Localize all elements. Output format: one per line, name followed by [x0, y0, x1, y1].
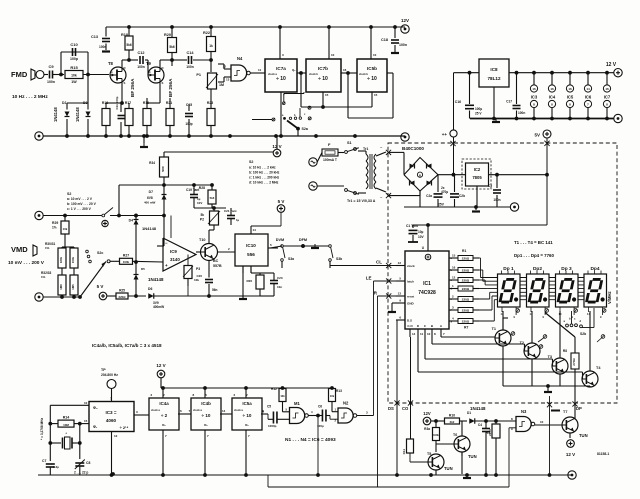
- svg-text:IC7a: IC7a: [276, 66, 286, 71]
- svg-text:+: +: [165, 263, 168, 268]
- svg-text:100p: 100p: [70, 57, 78, 61]
- svg-text:15: 15: [84, 419, 88, 423]
- svg-text:220Ω: 220Ω: [462, 287, 470, 291]
- svg-text:clock: clock: [407, 264, 415, 268]
- svg-text:5k6: 5k6: [169, 45, 175, 49]
- svg-text:P2: P2: [200, 218, 204, 222]
- svg-text:C9: C9: [48, 64, 54, 69]
- svg-text:3.3p: 3.3p: [53, 465, 59, 469]
- svg-text:10k: 10k: [194, 278, 199, 282]
- svg-text:CL: CL: [376, 260, 382, 265]
- svg-text:10M: 10M: [63, 423, 69, 427]
- svg-text:10V: 10V: [418, 235, 425, 239]
- svg-text:220Ω: 220Ω: [462, 278, 470, 282]
- svg-text:C16: C16: [455, 100, 461, 104]
- svg-text:R23: R23: [207, 101, 213, 105]
- svg-text:25 V: 25 V: [475, 112, 482, 116]
- svg-text:6V8: 6V8: [147, 196, 153, 200]
- svg-text:1N4148: 1N4148: [75, 107, 80, 122]
- svg-text:10: 10: [540, 420, 544, 424]
- svg-text:d: 10 kHz . . . 2 MHz: d: 10 kHz . . . 2 MHz: [249, 181, 279, 185]
- svg-text:TUN: TUN: [468, 454, 477, 459]
- svg-text:R21: R21: [166, 101, 172, 105]
- svg-text:100n: 100n: [47, 80, 55, 84]
- svg-text:R8: R8: [563, 349, 567, 353]
- svg-text:Tr1: Tr1: [363, 147, 368, 151]
- svg-text:G: G: [149, 70, 151, 74]
- svg-text:R3a: R3a: [424, 427, 430, 431]
- svg-text:T6: T6: [453, 433, 457, 437]
- svg-text:1M8: 1M8: [59, 284, 63, 290]
- svg-text:T8: T8: [108, 61, 114, 66]
- svg-text:N1 . . . N4 = IC6 = 4093: N1 . . . N4 = IC6 = 4093: [285, 437, 336, 443]
- svg-text:FMD: FMD: [11, 70, 28, 79]
- svg-text:16: 16: [343, 68, 347, 72]
- svg-text:R27: R27: [123, 253, 129, 257]
- svg-text:R1: R1: [462, 249, 466, 253]
- svg-text:220Ω: 220Ω: [462, 256, 470, 260]
- svg-text:T7: T7: [563, 410, 567, 414]
- svg-text:270Ω: 270Ω: [572, 358, 576, 366]
- svg-text:1000p: 1000p: [268, 424, 277, 428]
- svg-text:IC6: IC6: [585, 95, 592, 100]
- svg-text:C1 Tant: C1 Tant: [406, 224, 419, 228]
- svg-text:D5: D5: [141, 267, 145, 271]
- svg-text:12V: 12V: [423, 411, 431, 416]
- svg-text:10 mV . . . 200 V: 10 mV . . . 200 V: [8, 260, 45, 266]
- svg-text:10: 10: [373, 53, 377, 57]
- svg-text:b: 100 Hz . . . 20 kHz: b: 100 Hz . . . 20 kHz: [249, 171, 280, 175]
- svg-text:T5: T5: [427, 452, 431, 456]
- svg-text:C18: C18: [381, 38, 388, 42]
- svg-text:12: 12: [452, 276, 456, 280]
- svg-text:IC3: IC3: [531, 95, 538, 100]
- svg-text:B40C1000: B40C1000: [402, 146, 424, 151]
- svg-text:12: 12: [398, 261, 402, 265]
- svg-text:T10: T10: [199, 238, 206, 242]
- svg-text:IC4b: IC4b: [201, 401, 211, 406]
- svg-text:78L12: 78L12: [487, 76, 500, 81]
- svg-text:1%: 1%: [41, 275, 46, 279]
- svg-text:R18: R18: [121, 33, 128, 37]
- svg-text:D6: D6: [148, 287, 152, 291]
- svg-text:1%: 1%: [45, 246, 50, 250]
- svg-text:557B: 557B: [213, 264, 222, 268]
- svg-text:f: f: [451, 308, 452, 312]
- svg-text:÷ 10: ÷ 10: [243, 413, 252, 418]
- svg-text:latch: latch: [407, 280, 414, 284]
- svg-text:100n: 100n: [518, 111, 525, 115]
- svg-text:14: 14: [253, 228, 257, 232]
- svg-text:10k: 10k: [280, 394, 285, 398]
- svg-text:12 V: 12 V: [156, 363, 165, 368]
- svg-text:÷ 10: ÷ 10: [318, 76, 328, 82]
- svg-text:LE: LE: [366, 276, 372, 281]
- svg-text:÷ 10: ÷ 10: [202, 413, 211, 418]
- svg-text:IC5: IC5: [567, 95, 574, 100]
- svg-text:T9: T9: [146, 61, 152, 66]
- svg-text:S2c: S2c: [97, 251, 103, 255]
- svg-text:IC10: IC10: [246, 243, 256, 248]
- svg-text:IC4a: IC4a: [159, 401, 169, 406]
- svg-text:IC1: IC1: [423, 281, 431, 287]
- svg-text:IC2: IC2: [474, 167, 481, 172]
- svg-text:16: 16: [568, 87, 572, 91]
- svg-text:81158-1: 81158-1: [597, 452, 609, 456]
- svg-text:14: 14: [586, 87, 590, 91]
- svg-text:470µ: 470µ: [441, 190, 448, 194]
- svg-text:12V: 12V: [401, 18, 409, 23]
- svg-text:N3: N3: [521, 409, 527, 414]
- svg-text:R14: R14: [63, 416, 70, 420]
- svg-text:++: ++: [442, 132, 448, 137]
- svg-text:204.800 Hz: 204.800 Hz: [101, 373, 118, 377]
- svg-text:Dp4: Dp4: [590, 266, 599, 272]
- svg-text:220Ω: 220Ω: [462, 268, 470, 272]
- svg-text:1µ: 1µ: [236, 218, 240, 222]
- svg-text:÷ 10: ÷ 10: [276, 76, 286, 82]
- svg-text:11: 11: [420, 332, 424, 336]
- svg-text:13: 13: [398, 292, 402, 296]
- svg-text:P1: P1: [196, 73, 201, 77]
- svg-text:4060: 4060: [106, 418, 117, 423]
- svg-text:T3: T3: [548, 355, 552, 359]
- svg-text:C.O: C.O: [407, 324, 413, 328]
- svg-text:74C928: 74C928: [418, 290, 436, 296]
- svg-text:R17: R17: [125, 101, 131, 105]
- svg-text:7805: 7805: [472, 175, 482, 180]
- svg-text:÷ 2: ÷ 2: [161, 413, 168, 418]
- svg-text:1%: 1%: [52, 226, 57, 230]
- svg-text:100µ: 100µ: [475, 107, 482, 111]
- svg-text:100k: 100k: [433, 433, 439, 437]
- svg-text:reset: reset: [407, 295, 414, 299]
- svg-text:clock b: clock b: [309, 72, 318, 76]
- svg-text:10: 10: [331, 53, 335, 57]
- svg-text:D7: D7: [149, 190, 153, 194]
- svg-text:R12: R12: [271, 387, 277, 391]
- svg-text:C23: C23: [277, 276, 283, 280]
- svg-text:VMD: VMD: [11, 245, 28, 254]
- svg-text:C17: C17: [506, 100, 512, 104]
- svg-text:C20: C20: [196, 274, 202, 278]
- svg-text:10: 10: [84, 401, 88, 405]
- svg-text:5 V: 5 V: [97, 284, 104, 289]
- svg-text:12 V: 12 V: [606, 62, 617, 68]
- svg-text:R29: R29: [52, 221, 58, 225]
- svg-text:S3a: S3a: [288, 257, 294, 261]
- svg-text:56n: 56n: [212, 288, 218, 292]
- svg-text:a: 10 mV . . . 2 V: a: 10 mV . . . 2 V: [67, 197, 93, 201]
- svg-text:IC7: IC7: [604, 95, 611, 100]
- svg-text:2 . . . 22 p: 2 . . . 22 p: [74, 471, 88, 475]
- svg-text:TUN: TUN: [579, 433, 588, 438]
- svg-text:14: 14: [222, 409, 226, 413]
- svg-text:100mA T: 100mA T: [323, 158, 338, 162]
- svg-text:D2: D2: [62, 101, 66, 105]
- svg-text:C7: C7: [42, 459, 46, 463]
- svg-text:1N4148: 1N4148: [148, 277, 164, 282]
- svg-text:556: 556: [247, 252, 255, 257]
- svg-text:C21 Tant: C21 Tant: [224, 209, 236, 213]
- svg-text:R9: R9: [486, 431, 490, 435]
- svg-text:12: 12: [114, 434, 118, 438]
- svg-text:V/MHz: V/MHz: [607, 291, 612, 304]
- svg-text:R25: R25: [119, 289, 125, 293]
- svg-text:a: 10 Hz . . . 2 kHz: a: 10 Hz . . . 2 kHz: [249, 166, 276, 170]
- svg-text:100n: 100n: [99, 45, 107, 49]
- svg-text:Dp1 . . . Dp4 = 7760: Dp1 . . . Dp4 = 7760: [514, 253, 554, 258]
- svg-text:C4: C4: [478, 423, 482, 427]
- svg-text:÷ 10: ÷ 10: [367, 76, 377, 82]
- svg-text:Dp2: Dp2: [533, 266, 542, 272]
- svg-text:100n: 100n: [137, 65, 145, 69]
- svg-text:TUN: TUN: [444, 466, 453, 471]
- svg-text:C8: C8: [86, 461, 90, 465]
- svg-text:clock a: clock a: [234, 408, 243, 412]
- svg-text:DP: DP: [576, 406, 582, 411]
- svg-text:T1 . . . T4 = BC 141: T1 . . . T4 = BC 141: [514, 240, 553, 245]
- svg-text:15: 15: [452, 254, 456, 258]
- svg-text:IC3 =: IC3 =: [105, 410, 116, 415]
- svg-text:Dp 1: Dp 1: [503, 266, 514, 272]
- svg-text:3140: 3140: [170, 257, 180, 262]
- svg-text:D: D: [162, 66, 164, 70]
- svg-text:clock a: clock a: [193, 408, 202, 412]
- svg-text:N4: N4: [237, 56, 243, 61]
- svg-text:16: 16: [605, 87, 609, 91]
- svg-text:clock b: clock b: [359, 72, 368, 76]
- svg-text:P3: P3: [196, 267, 200, 271]
- svg-text:C5: C5: [267, 405, 271, 409]
- svg-text:12 V: 12 V: [566, 452, 575, 457]
- svg-text:D4: D4: [129, 219, 133, 223]
- svg-text:S2: S2: [249, 160, 253, 164]
- svg-text:Dp 3: Dp 3: [561, 266, 572, 272]
- svg-text:DFM: DFM: [299, 238, 307, 242]
- svg-text:R11: R11: [402, 449, 406, 455]
- svg-text:100p: 100p: [317, 424, 324, 428]
- svg-text:C6: C6: [318, 405, 322, 409]
- svg-text:1k: 1k: [209, 44, 213, 48]
- svg-text:25V: 25V: [438, 203, 445, 207]
- svg-text:100k: 100k: [123, 260, 130, 264]
- svg-text:10n: 10n: [277, 285, 282, 289]
- svg-text:C2a: C2a: [426, 194, 432, 198]
- svg-text:15: 15: [325, 93, 329, 97]
- svg-text:5k: 5k: [200, 213, 204, 217]
- svg-text:clock a: clock a: [268, 72, 277, 76]
- svg-text:IC5a: IC5a: [242, 401, 252, 406]
- svg-text:D: D: [124, 66, 126, 70]
- svg-text:C10: C10: [70, 42, 78, 47]
- svg-text:13: 13: [226, 78, 230, 82]
- svg-text:DS: DS: [388, 406, 394, 411]
- svg-text:1M: 1M: [219, 83, 224, 87]
- svg-text:11: 11: [258, 68, 262, 72]
- svg-text:D3: D3: [83, 101, 87, 105]
- svg-text:1M5: 1M5: [71, 284, 75, 290]
- svg-text:c: 1 kHz . . . 200 kHz: c: 1 kHz . . . 200 kHz: [249, 176, 280, 180]
- svg-text:R13: R13: [336, 389, 342, 393]
- svg-text:1N4148: 1N4148: [142, 226, 157, 231]
- svg-text:C3: C3: [488, 184, 492, 188]
- svg-text:IC9: IC9: [170, 249, 177, 254]
- svg-text:S1: S1: [347, 141, 352, 145]
- svg-text:BF 256A: BF 256A: [130, 78, 135, 97]
- svg-text:220Ω: 220Ω: [462, 308, 470, 312]
- svg-text:IC4a/b, IC5a/b, IC7a/b = 3 x 4: IC4a/b, IC5a/b, IC7a/b = 3 x 4518: [92, 343, 162, 348]
- svg-text:5 V: 5 V: [278, 199, 285, 204]
- svg-text:180k: 180k: [59, 256, 63, 263]
- svg-text:R15: R15: [70, 65, 78, 70]
- svg-text:220Ω: 220Ω: [119, 295, 127, 299]
- svg-text:−: −: [165, 241, 168, 246]
- svg-text:10k: 10k: [71, 74, 77, 78]
- svg-text:b: 100 mV . . . 20 V: b: 100 mV . . . 20 V: [67, 202, 97, 206]
- svg-text:5k6: 5k6: [126, 43, 132, 47]
- svg-text:T1: T1: [492, 327, 496, 331]
- svg-text:c: 1 V . . . 200 V: c: 1 V . . . 200 V: [67, 207, 92, 211]
- svg-text:S2a: S2a: [302, 127, 309, 131]
- svg-text:10V: 10V: [197, 201, 202, 205]
- svg-text:16: 16: [550, 87, 554, 91]
- svg-text:1N4148: 1N4148: [470, 406, 486, 411]
- svg-text:S2b: S2b: [580, 332, 586, 336]
- svg-text:DVM: DVM: [276, 238, 284, 242]
- svg-text:C14: C14: [187, 51, 195, 55]
- svg-text:Tr1 = 15 V/0,33 A: Tr1 = 15 V/0,33 A: [347, 199, 376, 203]
- svg-text:N2: N2: [343, 401, 349, 406]
- svg-text:14: 14: [412, 332, 416, 336]
- svg-text:TP: TP: [101, 368, 106, 372]
- svg-text:D1: D1: [467, 411, 471, 415]
- svg-text:G: G: [111, 70, 113, 74]
- svg-text:S: S: [124, 81, 126, 85]
- svg-text:R28: R28: [199, 186, 205, 190]
- svg-text:Φ₁: Φ₁: [93, 425, 98, 429]
- svg-text:5600: 5600: [161, 166, 165, 172]
- svg-text:400 mW: 400 mW: [144, 201, 156, 205]
- svg-text:S3b: S3b: [336, 257, 342, 261]
- svg-text:S2: S2: [67, 192, 71, 196]
- svg-text:15: 15: [374, 93, 378, 97]
- svg-text:R10: R10: [449, 414, 455, 418]
- svg-text:R26: R26: [246, 279, 252, 283]
- svg-text:1N4148: 1N4148: [53, 107, 58, 122]
- svg-text:R34: R34: [149, 161, 155, 165]
- svg-text:150k: 150k: [71, 256, 75, 263]
- svg-text:16: 16: [532, 87, 536, 91]
- svg-text:220Ω: 220Ω: [462, 319, 470, 323]
- svg-text:1W: 1W: [71, 80, 77, 84]
- svg-text:IC4: IC4: [549, 95, 556, 100]
- svg-text:16: 16: [452, 266, 456, 270]
- svg-text:IC7b: IC7b: [318, 66, 328, 71]
- svg-text:S: S: [162, 81, 164, 85]
- svg-text:10µ: 10µ: [418, 230, 424, 234]
- svg-text:10k: 10k: [63, 227, 68, 231]
- svg-text:IC5b: IC5b: [367, 66, 377, 71]
- svg-text:CO: CO: [402, 406, 409, 411]
- svg-text:2k2: 2k2: [450, 420, 455, 424]
- svg-text:M1: M1: [294, 401, 300, 406]
- svg-text:10 Hz . . . 2 MHz: 10 Hz . . . 2 MHz: [12, 94, 48, 100]
- svg-text:100n: 100n: [186, 65, 194, 69]
- svg-text:100n: 100n: [399, 43, 407, 47]
- svg-text:IC8: IC8: [490, 67, 498, 72]
- svg-text:÷ 2¹⁴: ÷ 2¹⁴: [120, 425, 129, 430]
- svg-text:D.S: D.S: [407, 319, 412, 323]
- svg-text:GND: GND: [407, 302, 415, 306]
- svg-text:C2b: C2b: [459, 194, 465, 198]
- svg-text:C12: C12: [138, 51, 145, 55]
- svg-text:400mW: 400mW: [153, 305, 164, 309]
- svg-text:R22: R22: [203, 31, 210, 35]
- svg-text:R20: R20: [164, 33, 171, 37]
- svg-text:clock a: clock a: [151, 408, 160, 412]
- svg-text:10: 10: [427, 332, 431, 336]
- svg-text:5k6: 5k6: [210, 196, 215, 200]
- svg-text:BF 256A: BF 256A: [168, 78, 173, 97]
- svg-text:10k: 10k: [330, 394, 335, 398]
- svg-text:* = 3,2768 MHz: * = 3,2768 MHz: [40, 418, 44, 440]
- svg-text:BC: BC: [213, 259, 219, 263]
- svg-text:220Ω: 220Ω: [462, 297, 470, 301]
- svg-text:R7: R7: [464, 326, 468, 330]
- svg-text:Φ₀: Φ₀: [93, 406, 98, 410]
- svg-text:5V: 5V: [534, 133, 540, 138]
- svg-text:C13: C13: [91, 35, 98, 39]
